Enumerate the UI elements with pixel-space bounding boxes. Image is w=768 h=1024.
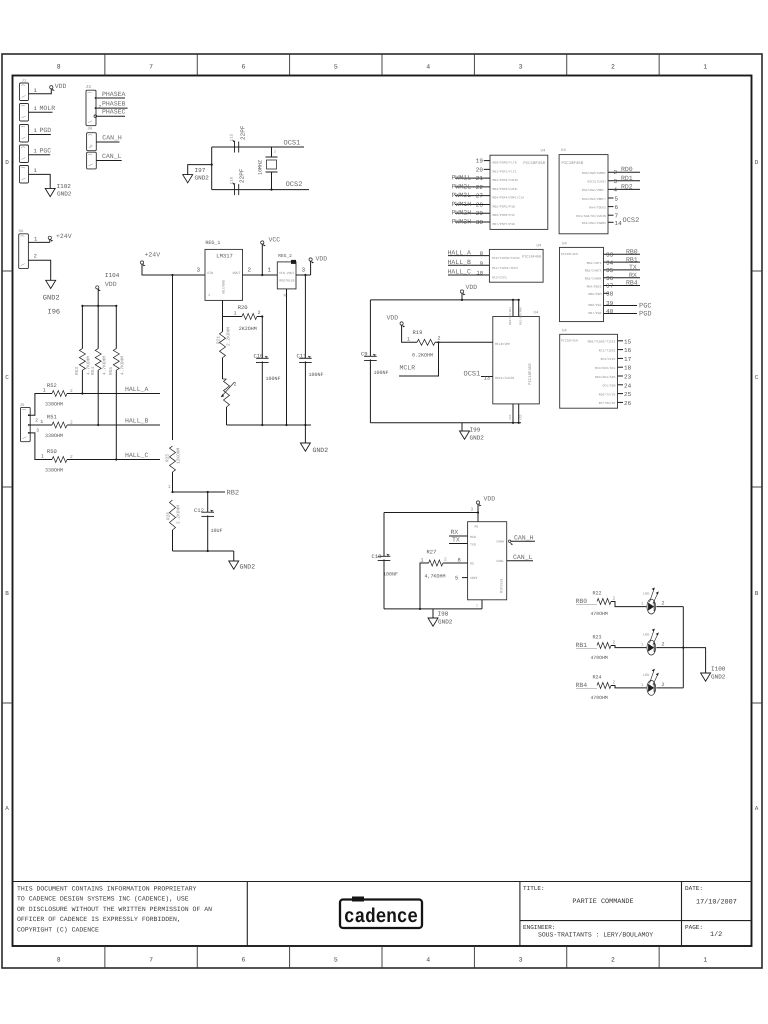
svg-text:39: 39 (606, 300, 614, 307)
svg-text:MCLR/VPP: MCLR/VPP (495, 342, 510, 346)
svg-text:PWM2L: PWM2L (452, 183, 472, 190)
svg-text:R23: R23 (593, 635, 602, 641)
svg-text:ADJ/GND: ADJ/GND (222, 280, 227, 294)
svg-text:3: 3 (471, 507, 474, 513)
svg-text:33: 33 (606, 252, 614, 259)
svg-text:VDD: VDD (316, 256, 328, 263)
svg-text:12KOHM: 12KOHM (176, 447, 182, 464)
svg-text:RB4: RB4 (576, 682, 588, 689)
svg-text:C16: C16 (230, 176, 235, 184)
svg-text:HALL_C: HALL_C (125, 452, 149, 459)
svg-text:RB2/PSP2/C2IN+: RB2/PSP2/C2IN+ (493, 178, 519, 182)
svg-text:VDD: VDD (105, 281, 117, 288)
svg-text:C: C (5, 374, 9, 381)
svg-text:R20: R20 (238, 304, 248, 311)
svg-text:RB0/PSP0/FLT0: RB0/PSP0/FLT0 (493, 161, 517, 165)
svg-text:cadence: cadence (344, 906, 418, 929)
svg-text:OC5/SD0: OC5/SD0 (603, 384, 616, 388)
svg-text:100NF: 100NF (374, 370, 389, 376)
svg-text:CAN_L: CAN_L (513, 554, 533, 561)
svg-text:D: D (755, 159, 759, 166)
svg-text:VIN: VIN (207, 271, 213, 276)
svg-text:RA1/AN1/CANRX: RA1/AN1/CANRX (582, 221, 606, 225)
svg-text:25: 25 (624, 391, 632, 398)
svg-text:4: 4 (426, 64, 430, 71)
svg-text:R55: R55 (109, 367, 114, 375)
svg-text:RC1/T1OSI: RC1/T1OSI (599, 348, 616, 352)
svg-text:PHASEA: PHASEA (102, 91, 126, 98)
svg-text:R52: R52 (47, 382, 57, 389)
svg-text:16: 16 (624, 347, 632, 354)
svg-text:VSS: VSS (509, 414, 512, 420)
svg-text:B: B (755, 590, 759, 597)
svg-text:R22: R22 (593, 591, 602, 597)
svg-text:CANL: CANL (496, 559, 504, 563)
svg-text:2: 2 (662, 682, 665, 688)
svg-text:RS: RS (470, 562, 474, 566)
svg-text:R24: R24 (593, 675, 602, 681)
svg-text:2: 2 (613, 640, 616, 646)
svg-text:2: 2 (234, 382, 237, 388)
svg-text:2: 2 (662, 601, 665, 607)
svg-text:VDD: VDD (466, 284, 478, 291)
svg-text:23: 23 (624, 374, 632, 381)
svg-text:OCS2: OCS2 (623, 217, 640, 225)
svg-text:U4: U4 (561, 148, 566, 153)
svg-text:C10: C10 (254, 353, 264, 360)
svg-text:C15: C15 (230, 133, 235, 141)
svg-text:330OHM: 330OHM (45, 402, 63, 408)
svg-text:U4: U4 (541, 148, 546, 153)
svg-text:4: 4 (426, 957, 430, 964)
svg-text:RS: RS (475, 525, 479, 529)
svg-text:RB4/PSP4/CMP1/C1A: RB4/PSP4/CMP1/C1A (493, 196, 525, 200)
svg-text:A: A (755, 805, 759, 812)
svg-text:D: D (5, 159, 9, 166)
svg-text:CAN_H: CAN_H (102, 135, 122, 142)
svg-text:GND2: GND2 (195, 175, 210, 182)
svg-text:LM317: LM317 (216, 253, 233, 260)
svg-text:U4: U4 (562, 328, 567, 333)
svg-text:HALL_C: HALL_C (448, 269, 472, 276)
svg-text:26: 26 (624, 400, 632, 407)
svg-text:2: 2 (438, 336, 441, 342)
svg-text:+24V: +24V (56, 233, 72, 240)
svg-text:2: 2 (611, 64, 615, 71)
svg-text:R54: R54 (91, 367, 96, 375)
svg-text:13: 13 (484, 375, 491, 382)
svg-text:+24V: +24V (145, 252, 161, 259)
svg-text:RC1/T1OSI/CCP2: RC1/T1OSI/CCP2 (492, 266, 518, 270)
svg-text:RB5/PSP5/P1B: RB5/PSP5/P1B (493, 204, 515, 208)
svg-text:2: 2 (444, 557, 447, 563)
svg-text:22PF: 22PF (239, 168, 246, 183)
svg-text:R53: R53 (74, 367, 80, 375)
svg-text:RC2/CCP1: RC2/CCP1 (492, 276, 507, 280)
svg-text:REG_2: REG_2 (278, 253, 292, 259)
svg-text:2: 2 (258, 310, 261, 316)
svg-text:14: 14 (615, 220, 623, 227)
svg-text:COPYRIGHT (C) CADENCE: COPYRIGHT (C) CADENCE (17, 926, 99, 933)
svg-text:I96: I96 (48, 309, 61, 317)
svg-text:1: 1 (234, 310, 237, 316)
svg-text:37: 37 (606, 283, 614, 290)
svg-text:PWM1L: PWM1L (452, 175, 472, 182)
svg-text:PHASEB: PHASEB (102, 101, 126, 108)
svg-text:3: 3 (197, 267, 201, 274)
svg-text:2: 2 (662, 642, 665, 648)
svg-text:7: 7 (149, 64, 153, 71)
svg-text:4.7KOHM: 4.7KOHM (120, 356, 126, 375)
svg-text:RC2/CCP1: RC2/CCP1 (601, 357, 616, 361)
svg-text:10: 10 (476, 270, 483, 277)
svg-text:RB0: RB0 (626, 249, 638, 256)
svg-text:2: 2 (613, 596, 616, 602)
svg-text:RE2/CS/AN7: RE2/CS/AN7 (508, 307, 512, 325)
svg-text:8: 8 (57, 957, 61, 964)
svg-text:RD1: RD1 (621, 175, 633, 182)
svg-text:5: 5 (615, 196, 619, 203)
svg-text:2.2KOHM: 2.2KOHM (176, 505, 182, 524)
svg-text:TX: TX (629, 264, 637, 271)
svg-text:2: 2 (35, 418, 38, 424)
svg-text:6: 6 (615, 204, 619, 211)
svg-text:PAGE:: PAGE: (685, 924, 703, 931)
svg-text:C: C (755, 374, 759, 381)
svg-text:GND2: GND2 (711, 674, 726, 681)
svg-text:R51: R51 (47, 414, 58, 421)
svg-text:I97: I97 (195, 167, 206, 174)
svg-text:24: 24 (624, 382, 632, 389)
svg-text:TO CADENCE DESIGN SYSTEMS INC: TO CADENCE DESIGN SYSTEMS INC (CADENCE),… (17, 896, 189, 903)
svg-text:MCP2551: MCP2551 (500, 578, 505, 593)
svg-text:8: 8 (458, 557, 461, 564)
svg-text:PIC18F458: PIC18F458 (562, 161, 584, 166)
svg-text:TXD: TXD (470, 543, 476, 547)
svg-text:RB0: RB0 (576, 598, 588, 605)
svg-text:2: 2 (613, 680, 616, 686)
svg-text:330OHM: 330OHM (45, 468, 63, 474)
svg-text:RB3/CANRX: RB3/CANRX (585, 277, 602, 281)
svg-text:1: 1 (407, 336, 410, 342)
svg-text:RB2/CANTX: RB2/CANTX (585, 269, 602, 273)
svg-text:36: 36 (606, 275, 614, 282)
svg-text:I98: I98 (438, 611, 449, 618)
svg-text:GND2: GND2 (313, 447, 329, 454)
svg-text:1: 1 (40, 419, 43, 425)
svg-text:8: 8 (57, 64, 61, 71)
svg-text:LED: LED (643, 673, 649, 678)
svg-text:OCS1: OCS1 (284, 140, 301, 148)
svg-text:C9: C9 (361, 351, 368, 358)
svg-text:PGC: PGC (639, 303, 652, 311)
svg-text:VSS: VSS (520, 414, 523, 420)
svg-text:2: 2 (614, 169, 618, 176)
svg-text:RXD: RXD (470, 535, 476, 539)
svg-text:2.2KOHM: 2.2KOHM (226, 327, 232, 346)
svg-text:1: 1 (268, 267, 272, 274)
svg-text:RB7/PGD: RB7/PGD (589, 311, 602, 315)
svg-text:1: 1 (703, 957, 707, 964)
svg-text:3: 3 (36, 428, 39, 434)
svg-text:PIC18F458: PIC18F458 (561, 339, 578, 343)
svg-text:RB0/T1OSO/T1CKI: RB0/T1OSO/T1CKI (588, 340, 616, 344)
svg-text:5: 5 (455, 575, 458, 582)
svg-text:470OHM: 470OHM (591, 611, 608, 617)
svg-text:RA3/AN3/VREF+: RA3/AN3/VREF+ (582, 197, 606, 201)
svg-text:22PF: 22PF (240, 125, 247, 140)
svg-text:GND2: GND2 (438, 619, 453, 626)
svg-text:2: 2 (248, 267, 252, 274)
svg-text:PWM3L: PWM3L (452, 192, 472, 199)
svg-text:100NF: 100NF (266, 376, 281, 382)
svg-text:PWM1H: PWM1H (452, 201, 472, 208)
svg-text:I99: I99 (470, 427, 481, 434)
svg-text:RA0/AN0/CVREF: RA0/AN0/CVREF (582, 171, 606, 175)
svg-text:1: 1 (208, 293, 210, 298)
svg-text:2: 2 (274, 150, 276, 155)
svg-text:C11: C11 (297, 353, 308, 360)
svg-text:RC0/T1OSO/T1CKI: RC0/T1OSO/T1CKI (492, 256, 520, 260)
svg-text:2K2OHM: 2K2OHM (239, 326, 257, 332)
svg-text:RA5/AN4/SS/LVDIN: RA5/AN4/SS/LVDIN (576, 214, 606, 218)
svg-text:19: 19 (476, 158, 484, 165)
svg-text:RD2: RD2 (621, 183, 633, 190)
svg-text:THIS DOCUMENT CONTAINS INFORMA: THIS DOCUMENT CONTAINS INFORMATION PROPR… (17, 886, 197, 893)
svg-text:PWM2H: PWM2H (452, 210, 472, 217)
svg-text:TX: TX (452, 537, 460, 544)
svg-text:CAN_H: CAN_H (514, 534, 534, 541)
svg-text:1: 1 (41, 454, 44, 460)
svg-text:C12: C12 (194, 507, 204, 514)
svg-text:5A: 5A (19, 229, 24, 234)
svg-text:VREF: VREF (470, 576, 478, 580)
svg-text:CAN_L: CAN_L (102, 153, 122, 160)
svg-text:35: 35 (606, 267, 614, 274)
svg-text:VDD: VDD (387, 315, 399, 322)
svg-text:OR DISCLOSURE WITHOUT THE WRIT: OR DISCLOSURE WITHOUT THE WRITTEN PERMIS… (17, 906, 212, 913)
svg-text:C13: C13 (372, 553, 382, 560)
svg-text:HALL_A: HALL_A (448, 249, 472, 256)
svg-text:HALL_A: HALL_A (125, 386, 149, 393)
svg-text:CANH: CANH (496, 540, 504, 544)
svg-text:RB2: RB2 (227, 490, 240, 498)
svg-text:5: 5 (334, 957, 338, 964)
svg-text:OCS2: OCS2 (286, 181, 303, 189)
svg-text:10MHZ: 10MHZ (258, 160, 264, 175)
svg-text:4.7KOHM: 4.7KOHM (102, 356, 108, 375)
svg-text:2: 2 (476, 604, 478, 608)
svg-text:R19: R19 (413, 329, 423, 336)
svg-text:470OHM: 470OHM (591, 695, 608, 701)
svg-text:18: 18 (624, 365, 632, 372)
svg-text:PGC: PGC (40, 148, 52, 155)
svg-text:1: 1 (168, 485, 171, 490)
svg-text:VDD: VDD (55, 83, 67, 90)
svg-text:U4: U4 (562, 241, 567, 246)
svg-text:U4: U4 (534, 311, 539, 316)
svg-text:RB4: RB4 (626, 280, 638, 287)
svg-text:B: B (5, 590, 9, 597)
svg-text:VIN VOUT: VIN VOUT (279, 271, 294, 275)
svg-text:OSC2(CLKO): OSC2(CLKO) (587, 180, 606, 184)
svg-text:2: 2 (34, 252, 37, 259)
svg-text:RB4/KBI0: RB4/KBI0 (587, 284, 602, 288)
svg-text:RA4/T0CKI: RA4/T0CKI (589, 205, 606, 209)
svg-text:RB1/INT1: RB1/INT1 (587, 261, 602, 265)
svg-text:MOLR: MOLR (40, 105, 56, 112)
svg-text:PWM3H: PWM3H (452, 218, 472, 225)
svg-text:U4: U4 (537, 243, 542, 248)
svg-text:100NF: 100NF (383, 572, 398, 578)
svg-text:GND2: GND2 (240, 564, 256, 571)
svg-text:8: 8 (480, 250, 483, 257)
svg-text:ENGINEER:: ENGINEER: (523, 924, 555, 931)
svg-text:40: 40 (606, 308, 614, 315)
svg-text:6: 6 (241, 957, 245, 964)
svg-text:RB6/PGC: RB6/PGC (589, 303, 602, 307)
svg-text:HALL_B: HALL_B (125, 418, 149, 425)
svg-text:VOUT: VOUT (232, 271, 240, 276)
svg-text:R27: R27 (427, 549, 437, 556)
svg-text:100NF: 100NF (309, 372, 324, 378)
svg-text:3: 3 (302, 267, 306, 274)
svg-text:GND2: GND2 (470, 435, 485, 442)
svg-text:REG_1: REG_1 (205, 240, 220, 246)
svg-text:R21: R21 (215, 336, 221, 344)
svg-text:470OHM: 470OHM (591, 655, 608, 661)
svg-text:HALL_B: HALL_B (448, 259, 472, 266)
svg-text:GND2: GND2 (57, 191, 72, 198)
svg-text:I104: I104 (105, 272, 120, 279)
svg-text:4: 4 (614, 186, 618, 193)
svg-text:OSC1/CLKIN: OSC1/CLKIN (495, 376, 514, 380)
svg-text:3: 3 (519, 957, 523, 964)
svg-text:RB7/PSP7/P1D: RB7/PSP7/P1D (493, 222, 515, 226)
svg-text:7: 7 (615, 213, 619, 220)
svg-text:VDD: VDD (484, 496, 496, 503)
svg-text:9: 9 (480, 260, 483, 267)
svg-text:38: 38 (606, 291, 614, 298)
svg-text:3: 3 (614, 178, 618, 185)
svg-text:I102: I102 (57, 183, 72, 190)
svg-text:PIC18F458: PIC18F458 (561, 252, 578, 256)
svg-text:34: 34 (606, 259, 614, 266)
svg-text:PGD: PGD (639, 311, 652, 319)
svg-text:J3: J3 (86, 84, 92, 90)
svg-text:RE1/WR/AN6: RE1/WR/AN6 (519, 307, 523, 325)
svg-text:R25: R25 (164, 454, 170, 462)
svg-text:LED: LED (643, 633, 649, 638)
svg-text:RX: RX (451, 529, 459, 536)
svg-text:17: 17 (624, 356, 632, 363)
svg-text:LED: LED (643, 592, 649, 597)
svg-text:PARTIE COMMANDE: PARTIE COMMANDE (572, 898, 633, 906)
svg-text:RD6/TX/CK: RD6/TX/CK (599, 392, 616, 396)
svg-text:R26: R26 (165, 512, 171, 520)
svg-text:1/2: 1/2 (710, 931, 722, 939)
svg-text:VCC: VCC (269, 237, 281, 244)
svg-text:1: 1 (703, 64, 707, 71)
svg-text:4,7KOHM: 4,7KOHM (425, 574, 446, 580)
svg-text:RC3/SCK/SCL: RC3/SCK/SCL (595, 366, 616, 370)
svg-text:PIC18F458: PIC18F458 (523, 161, 545, 166)
svg-text:RB1: RB1 (626, 256, 638, 263)
svg-text:20: 20 (476, 166, 484, 173)
svg-text:PHASEC: PHASEC (102, 109, 126, 116)
svg-text:RA2/AN2/VREF-: RA2/AN2/VREF- (582, 188, 606, 192)
svg-text:RX: RX (629, 272, 637, 279)
svg-text:15: 15 (624, 338, 632, 345)
svg-text:RB1: RB1 (576, 642, 588, 649)
svg-text:R50: R50 (47, 448, 57, 455)
svg-text:330OHM: 330OHM (45, 433, 63, 439)
svg-text:RD4/SD1/SDA: RD4/SD1/SDA (595, 375, 616, 379)
svg-text:PGD: PGD (40, 127, 52, 134)
svg-text:RB1/PSP1/FLT1: RB1/PSP1/FLT1 (493, 169, 517, 173)
svg-text:GND2: GND2 (43, 295, 60, 303)
svg-text:I100: I100 (711, 666, 726, 673)
svg-text:3: 3 (519, 64, 523, 71)
svg-text:OCS1: OCS1 (464, 371, 481, 379)
svg-text:2: 2 (611, 957, 615, 964)
svg-text:5: 5 (334, 64, 338, 71)
svg-text:RB3/PSP3/C2IN-: RB3/PSP3/C2IN- (493, 187, 519, 191)
svg-text:REG78L05: REG78L05 (279, 279, 294, 283)
svg-text:PIC18F458: PIC18F458 (528, 363, 533, 385)
svg-text:PIC18F458: PIC18F458 (522, 255, 541, 260)
svg-text:1: 1 (43, 388, 46, 394)
svg-text:RB5/PGM: RB5/PGM (589, 292, 602, 296)
svg-text:TITLE:: TITLE: (523, 885, 545, 892)
svg-text:3A: 3A (88, 126, 93, 131)
svg-text:6: 6 (241, 64, 245, 71)
svg-text:7: 7 (149, 957, 153, 964)
svg-text:MCLR: MCLR (400, 365, 416, 372)
svg-text:RD0: RD0 (621, 166, 633, 173)
svg-text:RC7/RX/DT: RC7/RX/DT (599, 401, 616, 405)
svg-text:DATE:: DATE: (685, 885, 703, 892)
svg-text:OFFICER OF CADENCE IS EXPRESSL: OFFICER OF CADENCE IS EXPRESSLY FORBIDDE… (17, 916, 181, 923)
svg-text:RB6/PSP6/P1C: RB6/PSP6/P1C (493, 213, 515, 217)
svg-text:A: A (5, 805, 9, 812)
svg-text:0.2KOHM: 0.2KOHM (412, 353, 433, 359)
svg-text:17/10/2007: 17/10/2007 (696, 899, 737, 907)
svg-text:10UF: 10UF (211, 528, 223, 534)
svg-text:SOUS-TRAITANTS : LERY/BOULAMOY: SOUS-TRAITANTS : LERY/BOULAMOY (538, 932, 653, 939)
